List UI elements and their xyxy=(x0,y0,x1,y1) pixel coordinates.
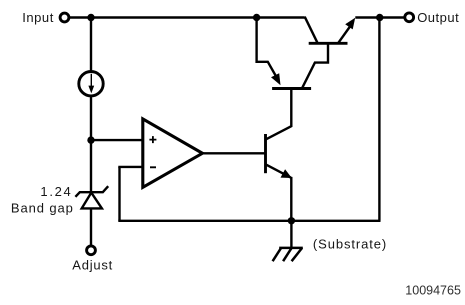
zener diode D1 band gap xyxy=(75,186,108,208)
transistor Q3 emitter xyxy=(266,165,292,178)
op-amp minus marking xyxy=(150,166,156,168)
svg-text:(Substrate): (Substrate) xyxy=(313,236,387,251)
wire op-amp output xyxy=(200,152,265,154)
wire bottom feedback xyxy=(118,220,380,222)
adjust terminal xyxy=(87,246,96,255)
transistor Q3 base bar xyxy=(264,134,267,173)
wire op-amp minus input xyxy=(118,166,144,168)
wire feedback vertical xyxy=(118,167,120,221)
wire input rail xyxy=(70,16,305,18)
input terminal xyxy=(60,13,69,22)
svg-text:Output: Output xyxy=(417,10,459,25)
transistor Q1 emitter xyxy=(257,16,281,85)
ground (substrate) xyxy=(273,248,303,261)
wire input to current source xyxy=(90,16,92,71)
wire output branch down xyxy=(378,18,380,221)
junction substrate node xyxy=(288,217,295,224)
wire zener to adjust xyxy=(90,208,92,245)
wire substrate stub xyxy=(290,221,292,247)
transistor Q1 base bar xyxy=(272,87,311,90)
svg-text:1.24: 1.24 xyxy=(40,184,72,199)
transistor Q2 emitter xyxy=(338,18,355,44)
op-amp plus marking xyxy=(149,136,156,143)
junction Q1 emitter node xyxy=(253,14,260,21)
junction input node xyxy=(87,14,94,21)
wire Q3 collector to Q1 base xyxy=(266,89,291,140)
wire output rail xyxy=(355,16,404,18)
wire Q1 collector to Q2 base xyxy=(302,43,328,88)
current source I1 xyxy=(79,72,103,96)
output terminal xyxy=(405,13,414,22)
svg-text:Adjust: Adjust xyxy=(72,257,113,272)
svg-text:Band gap: Band gap xyxy=(11,201,74,216)
op-amp U1 xyxy=(143,119,203,187)
wire op-amp plus input xyxy=(91,139,144,141)
wire current source to band gap xyxy=(90,96,92,191)
transistor Q2 collector xyxy=(305,17,318,44)
svg-text:10094765: 10094765 xyxy=(405,284,461,298)
junction output node xyxy=(376,14,383,21)
transistor Q2 base bar xyxy=(309,42,348,45)
junction band gap node xyxy=(87,136,94,143)
wire Q3 emitter to substrate node xyxy=(290,177,292,221)
svg-text:Input: Input xyxy=(22,10,54,25)
